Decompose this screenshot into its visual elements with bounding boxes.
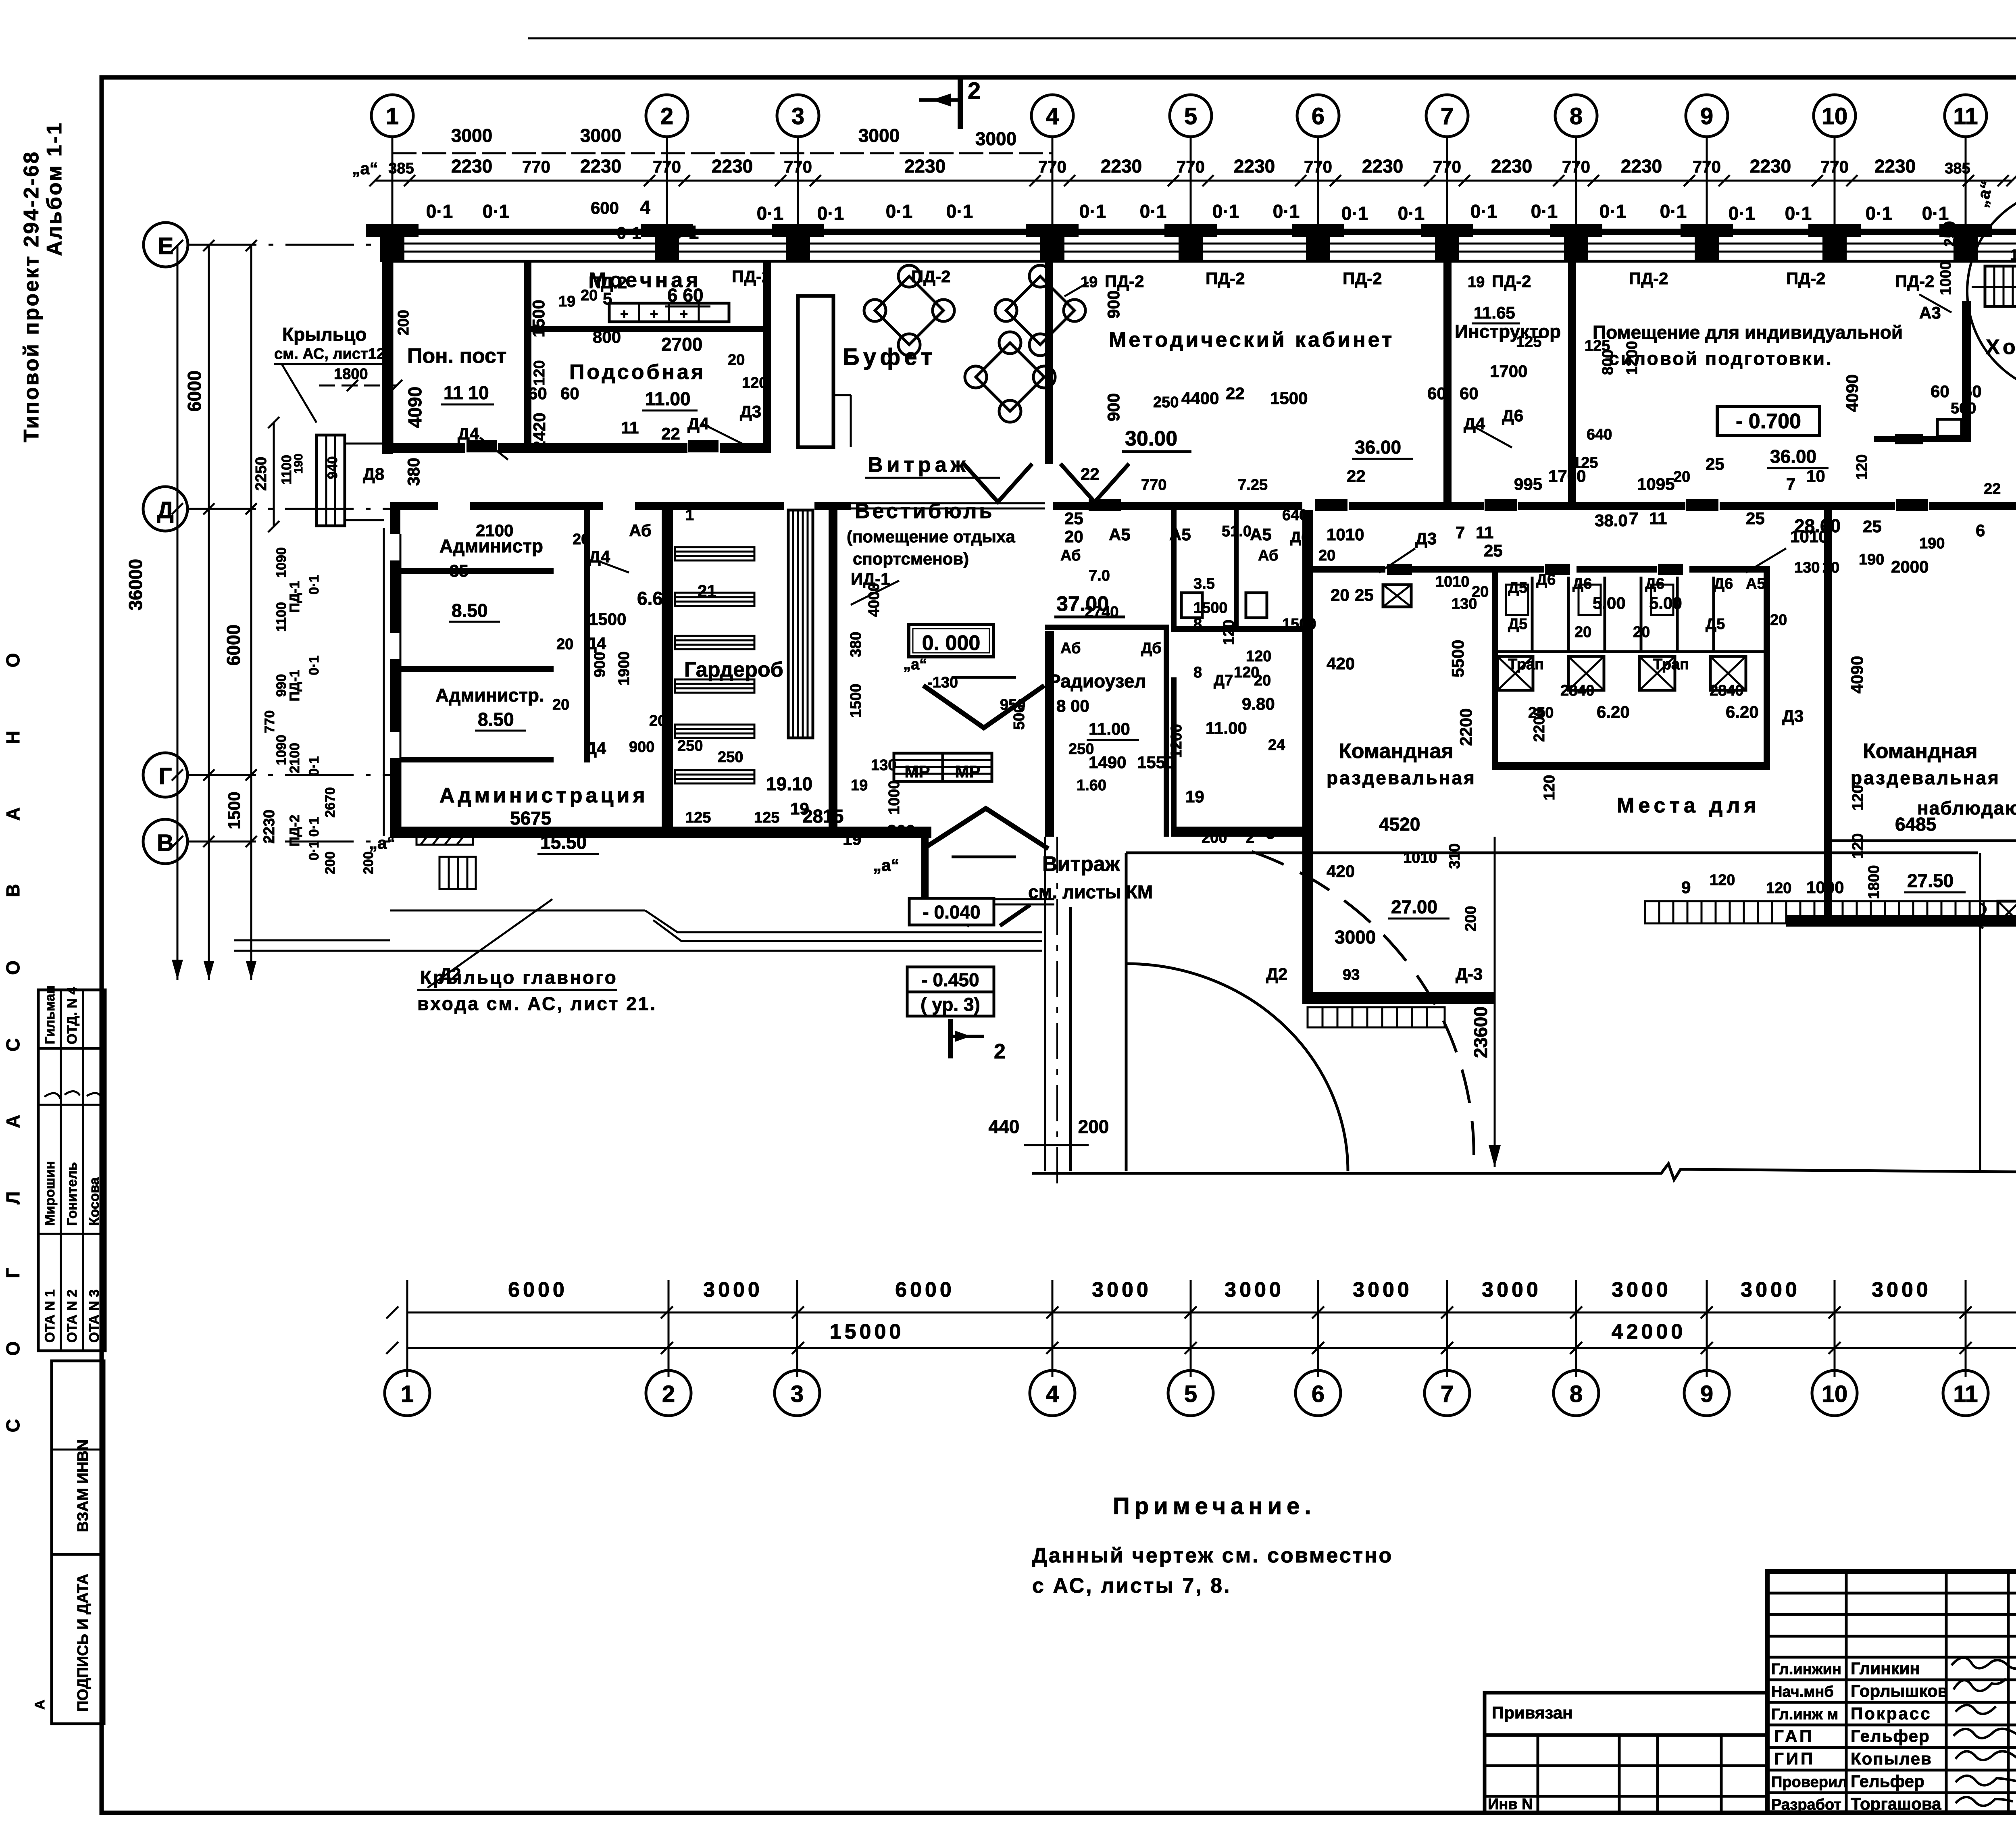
signature squiggles bbox=[1951, 1658, 2016, 1806]
svg-text:МР: МР bbox=[905, 762, 930, 781]
Командная левая left wall bbox=[1302, 510, 1313, 1004]
admin partition 3 bbox=[400, 757, 554, 762]
shower door blob bbox=[1545, 564, 1570, 575]
svg-text:4: 4 bbox=[1046, 103, 1059, 129]
svg-text:385: 385 bbox=[1945, 160, 1970, 177]
svg-text:силовой подготовки.: силовой подготовки. bbox=[1609, 348, 1833, 369]
svg-text:Д4: Д4 bbox=[687, 414, 709, 433]
svg-text:+: + bbox=[680, 306, 688, 322]
svg-text:Командная: Командная bbox=[1863, 739, 1978, 763]
admin partition 1 bbox=[400, 568, 554, 574]
svg-text:20: 20 bbox=[1770, 612, 1787, 629]
svg-text:Д3: Д3 bbox=[740, 402, 761, 421]
svg-text:1500: 1500 bbox=[589, 610, 626, 629]
terrace edge vertical double line bbox=[1045, 837, 1070, 1194]
pilaster axis7 bbox=[1421, 224, 1473, 262]
svg-text:Гонитель: Гонитель bbox=[65, 1162, 80, 1226]
svg-text:2230: 2230 bbox=[904, 156, 946, 177]
title block main bbox=[1767, 1571, 2016, 1813]
svg-text:770: 770 bbox=[1820, 157, 1849, 176]
svg-text:200: 200 bbox=[1202, 829, 1227, 846]
svg-text:1000: 1000 bbox=[886, 780, 903, 814]
svg-text:42000: 42000 bbox=[1612, 1320, 1686, 1344]
svg-text:1500: 1500 bbox=[1270, 389, 1308, 408]
svg-text:0·1: 0·1 bbox=[1660, 201, 1687, 222]
section mark 2 bottom bbox=[950, 1019, 1006, 1063]
svg-text:6 60: 6 60 bbox=[667, 285, 704, 306]
svg-text:Д3: Д3 bbox=[1782, 706, 1804, 725]
svg-text:0·1 0·1: 0·1 0·1 bbox=[306, 817, 322, 860]
svg-text:1: 1 bbox=[685, 507, 694, 524]
svg-text:Д2: Д2 bbox=[1266, 964, 1287, 983]
svg-text:Д4: Д4 bbox=[458, 424, 479, 443]
bottom axis circle 2 bbox=[646, 1371, 691, 1416]
svg-text:125: 125 bbox=[685, 809, 711, 826]
dim 23600 vertical bbox=[1470, 837, 1501, 1167]
svg-text:25: 25 bbox=[1355, 585, 1374, 604]
svg-text:0·1: 0·1 bbox=[306, 655, 322, 675]
svg-text:11.00: 11.00 bbox=[1089, 719, 1130, 738]
svg-text:с АС, листы 7, 8.: с АС, листы 7, 8. bbox=[1032, 1574, 1231, 1598]
svg-text:770: 770 bbox=[1562, 157, 1590, 176]
svg-text:8: 8 bbox=[1193, 616, 1202, 633]
svg-text:20: 20 bbox=[1574, 624, 1591, 641]
Гардероб right wall bbox=[829, 510, 837, 836]
svg-text:6000: 6000 bbox=[223, 625, 244, 666]
svg-text:380: 380 bbox=[404, 458, 423, 486]
top dim row 3000 (axis line 1) bbox=[392, 125, 1052, 153]
svg-text:Д6: Д6 bbox=[1572, 575, 1592, 592]
svg-text:27.00: 27.00 bbox=[1391, 896, 1437, 917]
svg-text:ОТА N 2: ОТА N 2 bbox=[65, 1289, 80, 1343]
svg-text:995: 995 bbox=[1514, 475, 1542, 494]
svg-text:11.00: 11.00 bbox=[1206, 719, 1247, 737]
bottom wall Пон.пост/Подсобная bbox=[382, 443, 771, 453]
svg-text:20: 20 bbox=[1254, 672, 1271, 689]
level box -0.040 bbox=[909, 898, 994, 925]
svg-text:4400: 4400 bbox=[1181, 389, 1219, 408]
label 27.50 bbox=[1904, 870, 1966, 892]
svg-text:3000: 3000 bbox=[451, 125, 492, 146]
label Крыльцо главного bbox=[417, 899, 657, 1014]
svg-text:440: 440 bbox=[989, 1116, 1020, 1137]
svg-text:3000: 3000 bbox=[703, 1278, 763, 1302]
svg-text:200: 200 bbox=[395, 310, 412, 335]
pilaster axis10 bbox=[1808, 224, 1861, 262]
axis circle 10 bbox=[1814, 95, 1856, 242]
svg-text:2230: 2230 bbox=[451, 156, 492, 177]
Командная левая bottom wall bbox=[1302, 992, 1495, 1004]
label 8.50 a bbox=[449, 600, 500, 622]
label 30.00 bbox=[1122, 427, 1191, 452]
svg-text:Г: Г bbox=[159, 763, 172, 789]
door blob 1 bbox=[467, 440, 497, 452]
svg-text:250: 250 bbox=[1941, 221, 1958, 246]
label 27.00 bbox=[1388, 896, 1450, 919]
svg-text:20: 20 bbox=[1822, 559, 1839, 576]
svg-text:25: 25 bbox=[1484, 541, 1503, 560]
svg-text:ПД-2: ПД-2 bbox=[732, 267, 771, 286]
svg-text:19: 19 bbox=[1468, 274, 1485, 291]
svg-text:0·1: 0·1 bbox=[1470, 201, 1497, 222]
axis circle 7 bbox=[1426, 95, 1468, 242]
svg-text:3000: 3000 bbox=[858, 125, 900, 146]
svg-text:- 0.450: - 0.450 bbox=[921, 969, 979, 990]
svg-text:3000: 3000 bbox=[1612, 1278, 1671, 1302]
svg-text:20: 20 bbox=[649, 712, 666, 729]
svg-text:ОТА N 3: ОТА N 3 bbox=[87, 1289, 102, 1343]
svg-text:30.00: 30.00 bbox=[1125, 427, 1177, 450]
svg-text:ПД.2: ПД.2 bbox=[589, 273, 627, 292]
track inner arc bbox=[1126, 964, 1348, 1171]
svg-text:500: 500 bbox=[1951, 400, 1976, 417]
svg-text:2740: 2740 bbox=[1085, 604, 1119, 621]
svg-text:4: 4 bbox=[640, 197, 650, 218]
svg-text:3: 3 bbox=[791, 1381, 804, 1407]
svg-text:2250: 2250 bbox=[253, 457, 270, 491]
axis circle 6 bbox=[1297, 95, 1339, 242]
svg-text:0·1: 0·1 bbox=[1866, 203, 1892, 224]
wall Методический/Инструктор axis7 bbox=[1443, 262, 1452, 508]
label 36.00 right bbox=[1767, 446, 1829, 468]
svg-text:Методический кабинет: Методический кабинет bbox=[1109, 328, 1394, 352]
svg-text:Дб: Дб bbox=[1141, 640, 1162, 657]
svg-text:22: 22 bbox=[1984, 481, 2001, 498]
svg-text:0·1: 0·1 bbox=[1729, 203, 1755, 224]
svg-text:Буфет: Буфет bbox=[843, 344, 936, 370]
svg-text:500: 500 bbox=[1011, 704, 1028, 730]
наблюдающие top line bbox=[1832, 839, 2016, 842]
svg-text:20: 20 bbox=[1318, 547, 1335, 564]
svg-text:ПД-2: ПД-2 bbox=[1343, 269, 1382, 288]
svg-text:Гильман: Гильман bbox=[42, 985, 58, 1044]
svg-text:6000: 6000 bbox=[508, 1278, 568, 1302]
svg-text:200: 200 bbox=[1078, 1116, 1109, 1137]
vestibule stair arrows МР bbox=[894, 753, 992, 781]
pilaster axis9 bbox=[1681, 224, 1733, 262]
svg-text:Инв N: Инв N bbox=[1488, 1796, 1533, 1813]
svg-text:60: 60 bbox=[560, 384, 579, 403]
svg-text:130: 130 bbox=[1794, 559, 1820, 576]
svg-text:20: 20 bbox=[552, 696, 569, 713]
svg-text:ОТА N 1: ОТА N 1 bbox=[42, 1289, 58, 1343]
svg-text:Администрация: Администрация bbox=[439, 784, 648, 807]
svg-text:20: 20 bbox=[573, 531, 589, 548]
svg-text:1090: 1090 bbox=[274, 547, 289, 578]
bottom axis circle 1 bbox=[385, 1371, 430, 1416]
svg-text:20: 20 bbox=[1673, 469, 1690, 485]
svg-text:250: 250 bbox=[677, 737, 703, 754]
svg-text:25: 25 bbox=[1706, 454, 1724, 473]
svg-text:5: 5 bbox=[1184, 1381, 1197, 1407]
svg-text:420: 420 bbox=[1327, 654, 1355, 673]
admin corridor wall vertical bbox=[584, 510, 590, 762]
left bottom stamp tables rotated bbox=[38, 985, 105, 1351]
pilaster axis2 bbox=[641, 224, 693, 262]
svg-text:11: 11 bbox=[1953, 103, 1978, 129]
svg-text:940: 940 bbox=[325, 456, 340, 479]
bottom axis circle 11 bbox=[1943, 1371, 1988, 1416]
svg-text:19.10: 19.10 bbox=[766, 773, 812, 794]
field bottom edge bbox=[1032, 1164, 2016, 1180]
svg-text:Гл.инжин: Гл.инжин bbox=[1771, 1661, 1841, 1678]
svg-text:Помещение для индивидуальной: Помещение для индивидуальной bbox=[1593, 322, 1903, 343]
left porch Крыльцо bbox=[317, 435, 384, 526]
svg-text:385: 385 bbox=[388, 160, 414, 177]
Гардероб shelf 1 bbox=[675, 547, 754, 560]
svg-text:800: 800 bbox=[1599, 350, 1616, 375]
dim texts scatter middle band bbox=[439, 507, 1884, 983]
axis circle 8 bbox=[1555, 95, 1597, 242]
section mark 2 top bbox=[919, 78, 981, 129]
svg-text:1010: 1010 bbox=[1435, 573, 1470, 590]
svg-text:5: 5 bbox=[603, 289, 612, 308]
svg-text:Д6: Д6 bbox=[1714, 575, 1733, 592]
svg-text:25: 25 bbox=[1746, 509, 1765, 528]
svg-text:20: 20 bbox=[1633, 624, 1650, 641]
svg-text:входа см. АС, лист 21.: входа см. АС, лист 21. bbox=[417, 993, 657, 1014]
svg-text:Радиоузел: Радиоузел bbox=[1048, 671, 1146, 692]
svg-text:0·1: 0·1 bbox=[1398, 203, 1425, 224]
dim ticks top bbox=[369, 175, 2016, 186]
pilaster axis8 bbox=[1550, 224, 1602, 262]
svg-text:0·1: 0·1 bbox=[306, 756, 322, 776]
svg-text:3000: 3000 bbox=[580, 125, 621, 146]
svg-text:2815: 2815 bbox=[802, 806, 843, 827]
svg-text:11: 11 bbox=[1649, 509, 1667, 528]
svg-text:наблюдающих: наблюдающих bbox=[1917, 798, 2016, 819]
svg-text:60: 60 bbox=[1427, 384, 1446, 403]
svg-text:Гельфер: Гельфер bbox=[1851, 1727, 1930, 1746]
svg-text:7.25: 7.25 bbox=[1238, 477, 1268, 494]
label -0.700 box bbox=[1717, 406, 1820, 435]
bottom axis circle 7 bbox=[1425, 1371, 1470, 1416]
axis circle Д bbox=[143, 487, 390, 531]
svg-text:ПД-1: ПД-1 bbox=[287, 581, 302, 613]
svg-text:ПД-2: ПД-2 bbox=[1492, 272, 1531, 291]
svg-text:11.65: 11.65 bbox=[1474, 303, 1515, 322]
Гардероб left wall bbox=[662, 510, 673, 836]
Буфет table 3 bbox=[965, 332, 1055, 422]
svg-text:200: 200 bbox=[361, 852, 376, 875]
svg-text:0·1: 0·1 bbox=[1273, 201, 1300, 222]
svg-text:120: 120 bbox=[531, 360, 548, 385]
svg-text:6: 6 bbox=[1976, 521, 1985, 540]
Гардероб shelf 5 bbox=[675, 725, 754, 738]
svg-text:4090: 4090 bbox=[1843, 374, 1862, 412]
svg-text:36000: 36000 bbox=[125, 559, 146, 610]
entrance bay left wall bbox=[921, 832, 929, 905]
svg-text:770: 770 bbox=[1693, 157, 1721, 176]
svg-text:25: 25 bbox=[1064, 509, 1083, 528]
svg-text:310: 310 bbox=[1446, 844, 1463, 869]
svg-text:250: 250 bbox=[1153, 394, 1179, 411]
axis circle 3 bbox=[777, 95, 819, 242]
Командная правая bottom wall bbox=[1786, 915, 2016, 927]
svg-text:25: 25 bbox=[1863, 517, 1882, 536]
svg-text:2: 2 bbox=[968, 78, 981, 104]
svg-text:Д3: Д3 bbox=[1415, 529, 1437, 548]
svg-text:3000: 3000 bbox=[1335, 927, 1376, 948]
svg-text:1000: 1000 bbox=[1806, 878, 1844, 897]
svg-text:2000: 2000 bbox=[1891, 557, 1929, 576]
shower left wall bbox=[1492, 573, 1498, 770]
svg-text:120: 120 bbox=[1220, 620, 1237, 645]
label 37.00 bbox=[1054, 592, 1125, 617]
svg-text:20: 20 bbox=[1331, 585, 1350, 604]
counter Моечная bbox=[609, 303, 729, 322]
svg-text:0·1: 0·1 bbox=[886, 201, 912, 222]
svg-text:9.80: 9.80 bbox=[1242, 694, 1275, 713]
left exterior wall top block bbox=[382, 228, 393, 454]
X cell 3 bbox=[1639, 656, 1675, 690]
svg-text:Гардероб: Гардероб bbox=[684, 658, 783, 681]
svg-text:ГАП: ГАП bbox=[1774, 1727, 1814, 1746]
svg-text:21: 21 bbox=[698, 581, 716, 600]
svg-text:120: 120 bbox=[1541, 775, 1558, 800]
svg-text:ПД-1: ПД-1 bbox=[287, 670, 302, 702]
pilaster axis1 bbox=[366, 224, 419, 262]
pilaster axis4 bbox=[1026, 224, 1079, 262]
label Витраж bottom bbox=[1028, 852, 1153, 902]
svg-text:5.00: 5.00 bbox=[1593, 594, 1626, 612]
svg-text:15000: 15000 bbox=[830, 1320, 904, 1344]
door blob Д2 bbox=[1089, 499, 1121, 511]
svg-text:1490: 1490 bbox=[1089, 753, 1126, 772]
svg-text:5.00: 5.00 bbox=[1649, 594, 1682, 612]
svg-text:24: 24 bbox=[1268, 737, 1285, 754]
svg-text:см. АС, лист121: см. АС, лист121 bbox=[274, 346, 394, 362]
svg-text:7: 7 bbox=[1456, 523, 1465, 542]
svg-text:3000: 3000 bbox=[975, 128, 1016, 149]
svg-text:9: 9 bbox=[1681, 878, 1691, 897]
svg-text:1800: 1800 bbox=[1866, 865, 1883, 899]
wall Помещение/Холл bbox=[1874, 301, 1971, 444]
svg-text:Д5: Д5 bbox=[1508, 579, 1527, 596]
right field squiggle top bbox=[1976, 903, 1986, 928]
svg-text:ГИП: ГИП bbox=[1774, 1749, 1815, 1768]
svg-text:2230: 2230 bbox=[580, 156, 621, 177]
svg-text:Д4: Д4 bbox=[585, 634, 606, 653]
axis circle 11 bbox=[1945, 95, 1987, 242]
svg-text:19: 19 bbox=[1081, 274, 1098, 291]
svg-text:22: 22 bbox=[1347, 467, 1366, 485]
svg-text:770: 770 bbox=[1141, 477, 1166, 494]
label 11.10 bbox=[441, 382, 494, 404]
svg-text:120: 120 bbox=[742, 375, 767, 392]
svg-text:2: 2 bbox=[994, 1040, 1006, 1063]
svg-text:„a“: „a“ bbox=[352, 159, 378, 178]
svg-text:2230: 2230 bbox=[261, 810, 278, 844]
shower bottom wall bbox=[1492, 762, 1770, 770]
svg-text:Аб: Аб bbox=[629, 521, 652, 540]
Гардероб shelf 4 bbox=[675, 679, 754, 693]
svg-text:900: 900 bbox=[1104, 393, 1123, 421]
svg-text:19: 19 bbox=[1185, 787, 1204, 806]
svg-text:0·1: 0·1 bbox=[1785, 203, 1812, 224]
svg-text:2230: 2230 bbox=[1491, 156, 1532, 177]
svg-text:Пон. пост: Пон. пост bbox=[407, 344, 506, 368]
label 11.65 bbox=[1472, 303, 1520, 323]
wall Буфет/Методический axis4 bbox=[1045, 262, 1053, 464]
door blob bbox=[1485, 499, 1517, 511]
svg-text:120: 120 bbox=[1766, 880, 1791, 897]
svg-text:Крыльцо главного: Крыльцо главного bbox=[420, 967, 618, 988]
svg-text:36.00: 36.00 bbox=[1355, 437, 1401, 458]
svg-text:130: 130 bbox=[871, 757, 896, 774]
svg-text:1095: 1095 bbox=[1637, 475, 1674, 494]
shower door blob bbox=[1387, 564, 1412, 575]
svg-text:Трап: Трап bbox=[1508, 656, 1544, 673]
label 8.50 b bbox=[475, 709, 526, 731]
shower block top wall bbox=[1313, 566, 1770, 573]
svg-text:7: 7 bbox=[1786, 475, 1795, 494]
svg-text:2670: 2670 bbox=[323, 787, 338, 818]
svg-text:Гельфер: Гельфер bbox=[1851, 1772, 1924, 1791]
svg-text:Подсобная: Подсобная bbox=[569, 360, 706, 384]
svg-text:Крыльцо: Крыльцо bbox=[282, 324, 367, 345]
svg-text:20: 20 bbox=[1064, 527, 1083, 546]
svg-text:Дб: Дб bbox=[1290, 529, 1311, 546]
entrance vitrage bbox=[929, 899, 1054, 926]
svg-text:раздевальная: раздевальная bbox=[1851, 767, 2000, 788]
svg-text:22: 22 bbox=[1081, 464, 1100, 483]
Командная правая left wall bbox=[1824, 510, 1832, 927]
svg-text:20: 20 bbox=[556, 636, 573, 653]
svg-text:0·1: 0·1 bbox=[1599, 201, 1626, 222]
dim 440 200 bbox=[989, 1116, 1109, 1145]
svg-text:- 0.040: - 0.040 bbox=[923, 902, 980, 923]
svg-text:6.20: 6.20 bbox=[1726, 702, 1759, 721]
svg-text:1010: 1010 bbox=[1790, 527, 1828, 546]
svg-text:19: 19 bbox=[843, 829, 862, 848]
svg-text:Вестибюль: Вестибюль bbox=[855, 500, 994, 523]
svg-text:2: 2 bbox=[1246, 829, 1254, 846]
svg-text:2200: 2200 bbox=[1531, 708, 1548, 742]
ИД-1 barrier strip bbox=[788, 510, 813, 738]
svg-text:( ур. 3): ( ур. 3) bbox=[921, 994, 980, 1015]
Буфет table 1 bbox=[864, 265, 954, 356]
svg-text:МР: МР bbox=[955, 762, 981, 781]
svg-text:2420: 2420 bbox=[530, 412, 549, 450]
svg-text:А5: А5 bbox=[1109, 525, 1131, 544]
svg-text:120: 120 bbox=[1854, 454, 1870, 480]
svg-text:„а“: „а“ bbox=[369, 833, 395, 852]
level box -0.450 bbox=[907, 967, 994, 1016]
label 36.00 left bbox=[1352, 437, 1413, 459]
label 0.000 box bbox=[909, 625, 993, 657]
svg-text:3000: 3000 bbox=[1092, 1278, 1152, 1302]
svg-text:3: 3 bbox=[791, 103, 804, 129]
bottom axis circle 9 bbox=[1684, 1371, 1729, 1416]
svg-text:27.50: 27.50 bbox=[1907, 870, 1954, 891]
svg-text:9: 9 bbox=[1700, 1381, 1713, 1407]
Д corridor wall right part bbox=[1053, 502, 2016, 510]
svg-text:ПД-2: ПД-2 bbox=[1786, 269, 1825, 288]
svg-text:А3: А3 bbox=[1919, 303, 1941, 322]
svg-text:1: 1 bbox=[386, 103, 399, 129]
svg-text:6000: 6000 bbox=[895, 1278, 955, 1302]
svg-text:Д: Д bbox=[157, 497, 173, 523]
axis circle Е bbox=[144, 223, 384, 267]
svg-text:А5: А5 bbox=[1746, 575, 1766, 592]
label 15.50 bbox=[537, 832, 599, 854]
svg-text:+: + bbox=[620, 306, 628, 322]
svg-text:4090: 4090 bbox=[1847, 656, 1866, 694]
svg-text:Места для: Места для bbox=[1617, 794, 1760, 817]
X cell 1 bbox=[1497, 656, 1533, 690]
svg-text:4: 4 bbox=[1046, 1381, 1059, 1407]
